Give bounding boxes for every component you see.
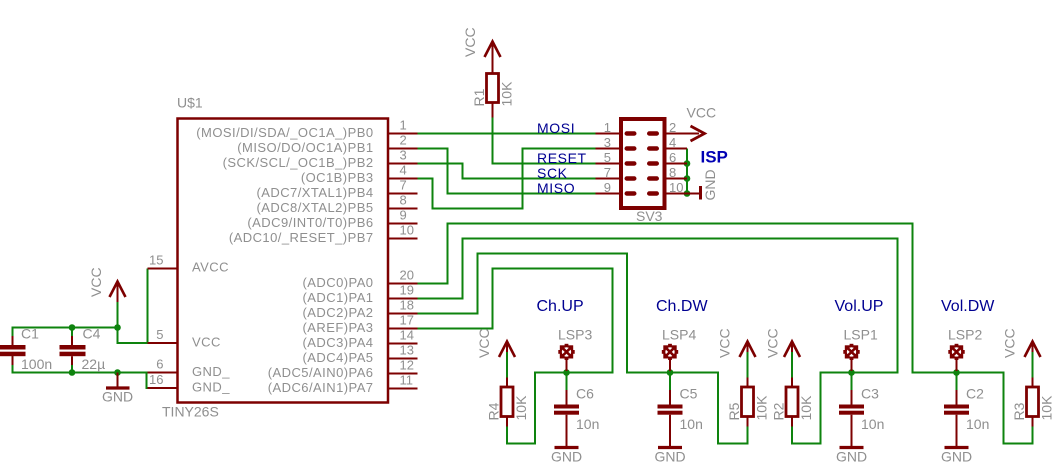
SV3 pad 7 — [625, 176, 637, 180]
VCC lead R4 — [506, 342, 508, 353]
SV3 pad 10 — [647, 191, 659, 195]
svg-text:17: 17 — [400, 313, 414, 328]
capacitor C4 bottom plate — [60, 352, 86, 357]
svg-text:VCC: VCC — [765, 328, 781, 358]
wire C2 top lead net — [956, 373, 958, 391]
junction dot node Vol.DW — [953, 369, 960, 376]
svg-text:MISO: MISO — [537, 180, 575, 196]
svg-text:10: 10 — [669, 180, 683, 195]
U1 pin 19 stub — [388, 298, 418, 300]
SV3 pin 2 stub — [665, 133, 700, 135]
svg-text:LSP3: LSP3 — [558, 327, 592, 343]
svg-text:GND: GND — [654, 449, 685, 465]
SV3 pad 2 — [647, 131, 659, 135]
svg-text:GND_: GND_ — [192, 364, 230, 379]
ground bar left — [106, 386, 130, 389]
SV3 pad 4 — [647, 146, 659, 150]
power VCC arrow for R5 — [740, 342, 756, 358]
U1 pin 14 stub — [388, 343, 418, 345]
svg-text:9: 9 — [604, 180, 611, 195]
junction dot node Ch.DW — [667, 369, 674, 376]
U1 pin 17 stub — [388, 328, 418, 330]
svg-text:R5: R5 — [726, 402, 742, 420]
junction dot node Ch.UP — [563, 369, 570, 376]
SV3 pin 4 stub — [665, 148, 688, 150]
svg-text:11: 11 — [400, 373, 414, 388]
testpoint LSP3 — [558, 344, 574, 371]
svg-text:1: 1 — [400, 118, 407, 133]
svg-text:(ADC10/_RESET_)PB7: (ADC10/_RESET_)PB7 — [229, 230, 374, 245]
U1 pin 11 stub — [388, 388, 418, 390]
VCC lead R2 — [791, 342, 793, 353]
ground bar C5 — [658, 446, 682, 449]
svg-text:10K: 10K — [754, 395, 770, 421]
svg-text:15: 15 — [149, 253, 163, 268]
U1 pin 7 stub — [388, 193, 418, 195]
svg-text:R4: R4 — [486, 402, 502, 420]
SV3 pin 3 stub — [596, 148, 622, 150]
svg-text:7: 7 — [400, 178, 407, 193]
wire AVCC branch (U1 pin15) — [147, 269, 149, 344]
R4 top lead — [506, 378, 508, 388]
power VCC arrow for R4 — [499, 342, 515, 358]
SV3 pin 6 stub — [665, 163, 688, 165]
svg-text:U$1: U$1 — [177, 95, 203, 111]
svg-text:10K: 10K — [798, 395, 814, 421]
svg-text:5: 5 — [156, 327, 163, 342]
svg-text:5: 5 — [604, 150, 611, 165]
ground bar C3 — [840, 446, 864, 449]
svg-text:(AREF)PA3: (AREF)PA3 — [303, 320, 374, 335]
wire GND rail left (C1 C4 to U1 pin6/pin16) — [13, 356, 148, 388]
svg-text:2: 2 — [669, 120, 676, 135]
capacitor C5 top plate — [658, 405, 683, 409]
capacitor C3 bottom plate — [839, 411, 864, 415]
svg-text:VCC: VCC — [717, 328, 733, 358]
R1 bottom lead — [492, 103, 494, 118]
power VCC arrow for R3 — [1025, 342, 1041, 358]
svg-text:MOSI: MOSI — [537, 120, 575, 136]
wire MISO net (U1 pin2 to SV3 pin9) — [418, 149, 596, 194]
C5 leads — [669, 390, 671, 405]
resistor R3 body — [1027, 387, 1039, 417]
wire C4 top lead net — [71, 328, 73, 337]
wire PA0 net (U1 pin20 to Vol.DW node and R3) — [418, 224, 1033, 444]
svg-text:R1: R1 — [471, 88, 487, 106]
resistor R4 body — [501, 387, 513, 417]
svg-text:(ADC9/INT0/T0)PB6: (ADC9/INT0/T0)PB6 — [247, 215, 373, 230]
svg-text:14: 14 — [400, 328, 414, 343]
U1 pin 16 stub (GND) — [148, 387, 178, 389]
SV3 pin 10 stub — [665, 193, 688, 195]
svg-text:R2: R2 — [771, 402, 787, 420]
C2 leads — [956, 390, 958, 405]
svg-text:C4: C4 — [83, 326, 101, 342]
svg-text:(ADC1)PA1: (ADC1)PA1 — [303, 290, 374, 305]
wire PA2 net (U1 pin18 to Ch.DW node and R5) — [418, 254, 748, 444]
power VCC arrow for R1 — [485, 42, 501, 58]
power VCC arrow at SV3 pin2 — [691, 126, 705, 141]
junction dot GND left — [114, 369, 121, 376]
svg-text:VCC: VCC — [1002, 328, 1018, 358]
svg-text:4: 4 — [400, 163, 407, 178]
svg-text:(MISO/DO/OC1A)PB1: (MISO/DO/OC1A)PB1 — [237, 140, 373, 155]
svg-text:8: 8 — [400, 193, 407, 208]
capacitor C6 bottom plate — [554, 411, 579, 415]
capacitor C5 bottom plate — [658, 411, 683, 415]
wire SV3 ground column (pins 4,6,8,10) — [686, 149, 688, 194]
U1 pin 9 stub — [388, 223, 418, 225]
SV3 pad 8 — [647, 176, 659, 180]
svg-text:3: 3 — [604, 135, 611, 150]
SV3 pad 1 — [625, 131, 637, 135]
VCC arrow left lead — [117, 282, 119, 303]
svg-text:(OC1B)PB3: (OC1B)PB3 — [301, 170, 374, 185]
SV3 pad 6 — [647, 161, 659, 165]
SV3 pin 7 stub — [596, 178, 622, 180]
svg-text:Ch.UP: Ch.UP — [537, 298, 584, 315]
svg-text:C6: C6 — [576, 386, 594, 402]
svg-text:ISP: ISP — [701, 148, 728, 167]
op-amp U1 body (TINY26S IC box) — [178, 119, 389, 403]
wire C4 bottom lead net — [71, 365, 73, 373]
svg-text:(ADC3)PA4: (ADC3)PA4 — [303, 335, 374, 350]
power VCC arrow for R2 — [784, 342, 800, 358]
svg-text:18: 18 — [400, 298, 414, 313]
ground bar C6 — [555, 446, 579, 449]
SV3 pin 9 stub — [596, 193, 622, 195]
svg-text:(ADC7/XTAL1)PB4: (ADC7/XTAL1)PB4 — [256, 185, 373, 200]
svg-text:(ADC8/XTAL2)PB5: (ADC8/XTAL2)PB5 — [256, 200, 373, 215]
R3 bottom lead — [1032, 417, 1034, 427]
capacitor C4 top plate — [60, 345, 86, 350]
resistor R2 body — [786, 387, 798, 417]
svg-text:TINY26S: TINY26S — [162, 404, 219, 420]
svg-text:SV3: SV3 — [636, 208, 663, 224]
capacitor C2 top plate — [944, 405, 969, 409]
resistor R5 body — [742, 387, 754, 417]
wire C3 top lead net — [851, 373, 853, 391]
VCC lead R5 — [747, 342, 749, 353]
svg-text:GND: GND — [551, 449, 582, 465]
junction dot SV3 pin6 — [684, 160, 691, 167]
junction dot C4 bottom — [69, 369, 76, 376]
junction dot SV3 pin8 — [684, 175, 691, 182]
svg-text:C5: C5 — [680, 386, 698, 402]
wire C1 bottom lead net — [12, 365, 14, 373]
junction dot node Vol.UP — [848, 369, 855, 376]
connector SV3 box — [621, 119, 665, 208]
svg-text:9: 9 — [400, 208, 407, 223]
wire PB3 net (U1 pin4 to SV3 pin3) — [418, 149, 596, 209]
svg-text:Vol.DW: Vol.DW — [941, 298, 995, 315]
svg-text:8: 8 — [669, 165, 676, 180]
svg-text:C2: C2 — [966, 386, 984, 402]
capacitor C3 top plate — [839, 405, 864, 409]
svg-text:R3: R3 — [1011, 402, 1027, 420]
U1 pin 13 stub — [388, 358, 418, 360]
svg-text:19: 19 — [400, 283, 414, 298]
svg-text:(MOSI/DI/SDA/_OC1A_)PB0: (MOSI/DI/SDA/_OC1A_)PB0 — [196, 125, 373, 140]
svg-text:AVCC: AVCC — [192, 260, 229, 275]
U1 pin 5 stub (VCC) — [148, 342, 178, 344]
svg-text:C1: C1 — [21, 326, 39, 342]
wire C1 top lead net — [12, 328, 14, 337]
svg-text:(ADC6/AIN1)PA7: (ADC6/AIN1)PA7 — [268, 380, 374, 395]
resistor R1 body — [487, 74, 499, 103]
R2 bottom lead — [791, 417, 793, 427]
capacitor C1 top plate — [0, 345, 26, 350]
wire RESET net (R1 to SV3 pin5) — [493, 118, 596, 164]
testpoint LSP4 — [662, 344, 678, 371]
svg-text:3: 3 — [400, 148, 407, 163]
svg-text:VCC: VCC — [687, 105, 717, 121]
svg-text:10n: 10n — [680, 416, 703, 432]
wire R5 top net — [747, 352, 749, 378]
C1 leads — [12, 336, 14, 345]
svg-text:LSP1: LSP1 — [844, 327, 878, 343]
testpoint LSP1 — [843, 344, 859, 371]
U1 pin 18 stub — [388, 313, 418, 315]
svg-text:C3: C3 — [861, 386, 879, 402]
wire VCC rail left (C1 C4 to U1 pin5/pin15) — [13, 328, 148, 346]
ground lead at SV3 pin10 — [687, 193, 699, 195]
SV3 pin 8 stub — [665, 178, 688, 180]
C6 leads — [566, 390, 568, 405]
capacitor C1 bottom plate — [0, 352, 26, 357]
testpoint LSP2 — [948, 344, 964, 371]
wire VCC arrow drop left — [117, 302, 119, 328]
svg-text:SCK: SCK — [537, 165, 568, 181]
capacitor C6 top plate — [554, 405, 579, 409]
wire PA1 net (U1 pin19 to Vol.UP node and R2) — [418, 239, 898, 444]
svg-text:VCC: VCC — [192, 334, 221, 349]
svg-text:10K: 10K — [513, 395, 529, 421]
R3 top lead — [1032, 378, 1034, 388]
svg-text:LSP4: LSP4 — [662, 327, 696, 343]
svg-text:12: 12 — [400, 358, 414, 373]
SV3 pad 3 — [625, 146, 637, 150]
R5 bottom lead — [747, 417, 749, 427]
U1 pin 2 stub — [388, 148, 418, 150]
svg-text:2: 2 — [400, 133, 407, 148]
SV3 pin 1 stub — [596, 133, 622, 135]
SV3 pad 5 — [625, 161, 637, 165]
R2 top lead — [791, 378, 793, 388]
wire R3 top net — [1032, 352, 1034, 378]
svg-text:GND_: GND_ — [192, 379, 230, 394]
U1 pin 15 stub (AVCC) — [148, 268, 178, 270]
svg-text:(SCK/SCL/_OC1B_)PB2: (SCK/SCL/_OC1B_)PB2 — [223, 155, 374, 170]
ground bar at SV3 — [699, 186, 702, 200]
svg-text:6: 6 — [156, 357, 163, 372]
U1 pin 4 stub — [388, 178, 418, 180]
svg-text:10K: 10K — [499, 81, 515, 107]
SV3 pin 5 stub — [596, 163, 622, 165]
U1 pin 1 stub — [388, 133, 418, 135]
U1 pin 3 stub — [388, 163, 418, 165]
power VCC arrow left — [110, 282, 126, 298]
C4 leads — [71, 336, 73, 345]
VCC lead R3 — [1032, 342, 1034, 353]
wire C5 top lead net — [669, 373, 671, 391]
svg-text:LSP2: LSP2 — [948, 327, 982, 343]
U1 pin 6 stub (GND) — [148, 372, 178, 374]
svg-text:(ADC4)PA5: (ADC4)PA5 — [303, 350, 374, 365]
svg-text:Ch.DW: Ch.DW — [656, 298, 708, 315]
svg-text:10n: 10n — [861, 416, 884, 432]
svg-text:10K: 10K — [1039, 395, 1055, 421]
svg-text:VCC: VCC — [462, 27, 478, 57]
svg-text:GND: GND — [836, 449, 867, 465]
svg-text:VCC: VCC — [88, 267, 104, 297]
junction dot C4 top — [69, 324, 76, 331]
wire C6 top lead net — [566, 373, 568, 391]
junction dot SV3 pin10 — [684, 190, 691, 197]
R4 bottom lead — [506, 417, 508, 427]
wire R2 top net — [791, 352, 793, 378]
wire R4 top net — [506, 352, 508, 378]
svg-text:7: 7 — [604, 165, 611, 180]
svg-text:16: 16 — [149, 372, 163, 387]
U1 pin 8 stub — [388, 208, 418, 210]
wire PA3 net (U1 pin17 to Ch.UP node and R4) — [418, 269, 613, 444]
svg-text:RESET: RESET — [537, 150, 587, 166]
SV3 pad 9 — [625, 191, 637, 195]
svg-text:20: 20 — [400, 268, 414, 283]
svg-text:Vol.UP: Vol.UP — [835, 298, 884, 315]
svg-text:13: 13 — [400, 343, 414, 358]
U1 pin 20 stub — [388, 283, 418, 285]
svg-text:(ADC0)PA0: (ADC0)PA0 — [303, 275, 374, 290]
R5 top lead — [747, 378, 749, 388]
VCC lead R1 — [492, 42, 494, 74]
wire MOSI net (U1 pin1 to SV3 pin1) — [418, 133, 596, 135]
svg-text:GND: GND — [941, 449, 972, 465]
U1 pin 10 stub — [388, 238, 418, 240]
svg-text:10n: 10n — [966, 416, 989, 432]
capacitor C2 bottom plate — [944, 411, 969, 415]
C3 leads — [851, 390, 853, 405]
svg-text:10n: 10n — [576, 416, 599, 432]
svg-text:4: 4 — [669, 135, 676, 150]
svg-text:VCC: VCC — [476, 328, 492, 358]
svg-text:GND: GND — [702, 169, 718, 200]
svg-text:100n: 100n — [21, 356, 52, 372]
U1 pin 12 stub — [388, 373, 418, 375]
svg-text:1: 1 — [604, 120, 611, 135]
svg-text:22µ: 22µ — [82, 356, 106, 372]
svg-text:(ADC5/AIN0)PA6: (ADC5/AIN0)PA6 — [268, 365, 374, 380]
svg-text:6: 6 — [669, 150, 676, 165]
wire SCK net (U1 pin3 to SV3 pin7) — [418, 164, 596, 179]
svg-text:(ADC2)PA2: (ADC2)PA2 — [303, 305, 374, 320]
svg-text:GND: GND — [102, 389, 133, 405]
ground bar C2 — [945, 446, 969, 449]
junction dot VCC arrow left — [114, 324, 121, 331]
ground lead left — [117, 373, 119, 388]
svg-text:10: 10 — [400, 223, 414, 238]
